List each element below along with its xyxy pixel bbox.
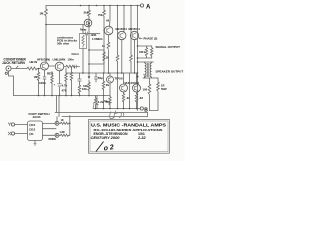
svg-text:MODE: MODE (49, 138, 57, 141)
svg-text:4.7k: 4.7k (62, 84, 68, 88)
svg-text:50k ohm: 50k ohm (57, 42, 70, 46)
svg-text:1K: 1K (61, 119, 64, 122)
svg-text:Relay: Relay (80, 29, 87, 32)
svg-text:MJ15024: MJ15024 (129, 27, 141, 31)
svg-text:1.5MEG: 1.5MEG (92, 37, 103, 41)
svg-text:2k: 2k (106, 83, 110, 87)
svg-text:SIGNAL OUTPUT: SIGNAL OUTPUT (156, 45, 181, 49)
svg-text:SPEAKER OUTPUT: SPEAKER OUTPUT (156, 70, 184, 74)
svg-text:CR1: CR1 (139, 50, 145, 54)
svg-text:MJ15024: MJ15024 (116, 27, 128, 31)
svg-text:100: 100 (143, 88, 148, 92)
svg-text:+: + (54, 83, 56, 87)
svg-text:2k2: 2k2 (84, 11, 89, 15)
svg-text:o 2: o 2 (103, 144, 114, 152)
svg-text:LM(L)84N: LM(L)84N (53, 58, 66, 62)
svg-text:1M: 1M (40, 12, 45, 16)
svg-text:HFB E(IN): HFB E(IN) (37, 58, 50, 62)
svg-text:A: A (146, 4, 151, 10)
svg-text:PHASE (2): PHASE (2) (144, 37, 158, 41)
svg-text:50W: 50W (161, 87, 167, 91)
svg-text:.33: .33 (139, 96, 144, 100)
svg-text:700: 700 (98, 14, 103, 17)
svg-text:1.8K: 1.8K (60, 131, 65, 134)
svg-text:⟨31: ⟨31 (29, 132, 34, 136)
svg-text:HB IN: HB IN (30, 60, 38, 64)
svg-text:JACK RETURN: JACK RETURN (2, 61, 26, 65)
svg-text:TIP50: TIP50 (115, 77, 123, 81)
svg-text:⟨315: ⟨315 (29, 123, 35, 127)
svg-text:CHA A: CHA A (72, 53, 80, 56)
svg-text:1M: 1M (34, 76, 37, 79)
svg-text:47k: 47k (105, 100, 110, 104)
svg-text:⟨312: ⟨312 (29, 128, 35, 132)
svg-text:2-32: 2-32 (137, 136, 146, 140)
svg-text:CENTURY 2000: CENTURY 2000 (91, 136, 121, 140)
svg-text:U.S. MUSIC -RANDALL AMPS: U.S. MUSIC -RANDALL AMPS (91, 123, 166, 128)
svg-text:RED: RED (47, 72, 54, 76)
svg-text:1.2k: 1.2k (98, 100, 104, 104)
svg-text:100n: 100n (39, 81, 46, 85)
svg-text:50p: 50p (98, 76, 103, 80)
svg-text:100n: 100n (68, 58, 74, 62)
svg-text:10k: 10k (83, 84, 88, 88)
svg-text:JACK: JACK (33, 115, 42, 119)
